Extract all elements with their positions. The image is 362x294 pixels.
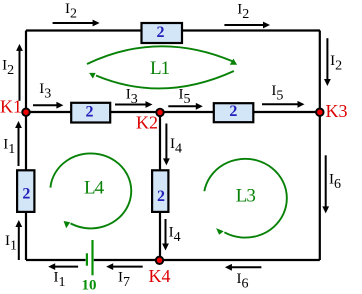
current arrow I1 (left side below resistor, upward)	[15, 220, 22, 260]
resistor 2 (K2-K3 branch)	[214, 103, 254, 122]
node K3	[315, 108, 324, 117]
current arrow I6 (right side, downward)	[322, 155, 329, 213]
node K1	[21, 108, 30, 117]
wire top side K1-corner to K3-corner	[26, 29, 320, 31]
resistor 2 (K2-K4 branch)	[152, 170, 168, 212]
svg-text:2: 2	[86, 103, 94, 120]
svg-text:I2: I2	[2, 58, 14, 79]
loop L3 circle (clockwise arrow)	[204, 159, 287, 238]
svg-text:I4: I4	[170, 136, 182, 157]
wire bottom side left of battery	[26, 259, 86, 261]
current arrow I4 (K2 to resistor, downward)	[163, 124, 170, 166]
svg-text:I4: I4	[169, 224, 181, 245]
svg-text:2: 2	[157, 188, 165, 205]
current arrow I6 (bottom right, leftward)	[225, 264, 262, 271]
svg-text:I6: I6	[329, 171, 341, 192]
svg-text:I1: I1	[5, 233, 17, 254]
current arrow I5 (resistor to K3, rightward)	[262, 101, 305, 108]
current arrow I1 (bottom left, leftward)	[48, 263, 78, 270]
svg-text:K2: K2	[136, 113, 158, 133]
svg-text:L4: L4	[84, 178, 105, 199]
svg-text:I2: I2	[65, 1, 77, 22]
wire middle vertical K2-K4	[159, 112, 161, 260]
svg-text:K4: K4	[149, 266, 171, 286]
current arrow I2 (top left, rightward)	[53, 20, 100, 27]
svg-text:I6: I6	[237, 271, 249, 292]
current arrow I2 (top right, rightward)	[224, 22, 270, 29]
wire middle horizontal K1-K2-K3	[26, 111, 320, 113]
battery positive plate (long)	[91, 240, 93, 275]
current arrow I3 (K1 to resistor, rightward)	[33, 102, 63, 109]
wire bottom side right of battery	[94, 259, 320, 261]
svg-text:I5: I5	[179, 87, 191, 108]
current arrow I2 (left side, upward)	[16, 44, 23, 101]
svg-text:L1: L1	[150, 58, 170, 79]
resistor 2 (K1-K2 branch)	[71, 103, 110, 123]
node K2	[155, 108, 164, 117]
loop L4 circle (clockwise arrow)	[50, 153, 131, 228]
resistor 2 (top branch)	[142, 23, 183, 43]
svg-text:L3: L3	[236, 186, 256, 207]
svg-text:I5: I5	[271, 83, 283, 104]
current arrow I1 (left side above resistor, upward)	[15, 121, 22, 166]
current arrow I5 (K2 to resistor, rightward)	[168, 103, 203, 110]
svg-text:I3: I3	[39, 81, 51, 102]
resistor 2 (left branch)	[17, 170, 34, 212]
wire right side	[319, 31, 321, 261]
svg-text:I2: I2	[330, 53, 342, 74]
battery negative plate (short)	[86, 253, 88, 265]
svg-text:K3: K3	[326, 101, 348, 121]
node K4	[155, 256, 164, 265]
loop L1 top arc (clockwise arrow)	[87, 46, 237, 64]
loop L1 bottom arc (clockwise arrow)	[89, 71, 234, 88]
svg-text:I2: I2	[237, 2, 249, 23]
svg-text:I1: I1	[3, 137, 15, 158]
wire left side	[25, 31, 27, 261]
current arrow I2 (right side, downward)	[324, 38, 331, 86]
svg-text:2: 2	[229, 103, 237, 120]
svg-text:2: 2	[157, 24, 165, 41]
svg-text:I1: I1	[54, 270, 66, 291]
current arrow I7 (bottom, leftward toward battery)	[106, 263, 143, 270]
svg-text:2: 2	[22, 185, 30, 202]
svg-text:10: 10	[82, 278, 97, 294]
current arrow I4 (resistor to K4, downward)	[162, 219, 169, 251]
current arrow I3 (resistor to K2, rightward)	[115, 101, 153, 108]
svg-text:I7: I7	[118, 270, 130, 291]
